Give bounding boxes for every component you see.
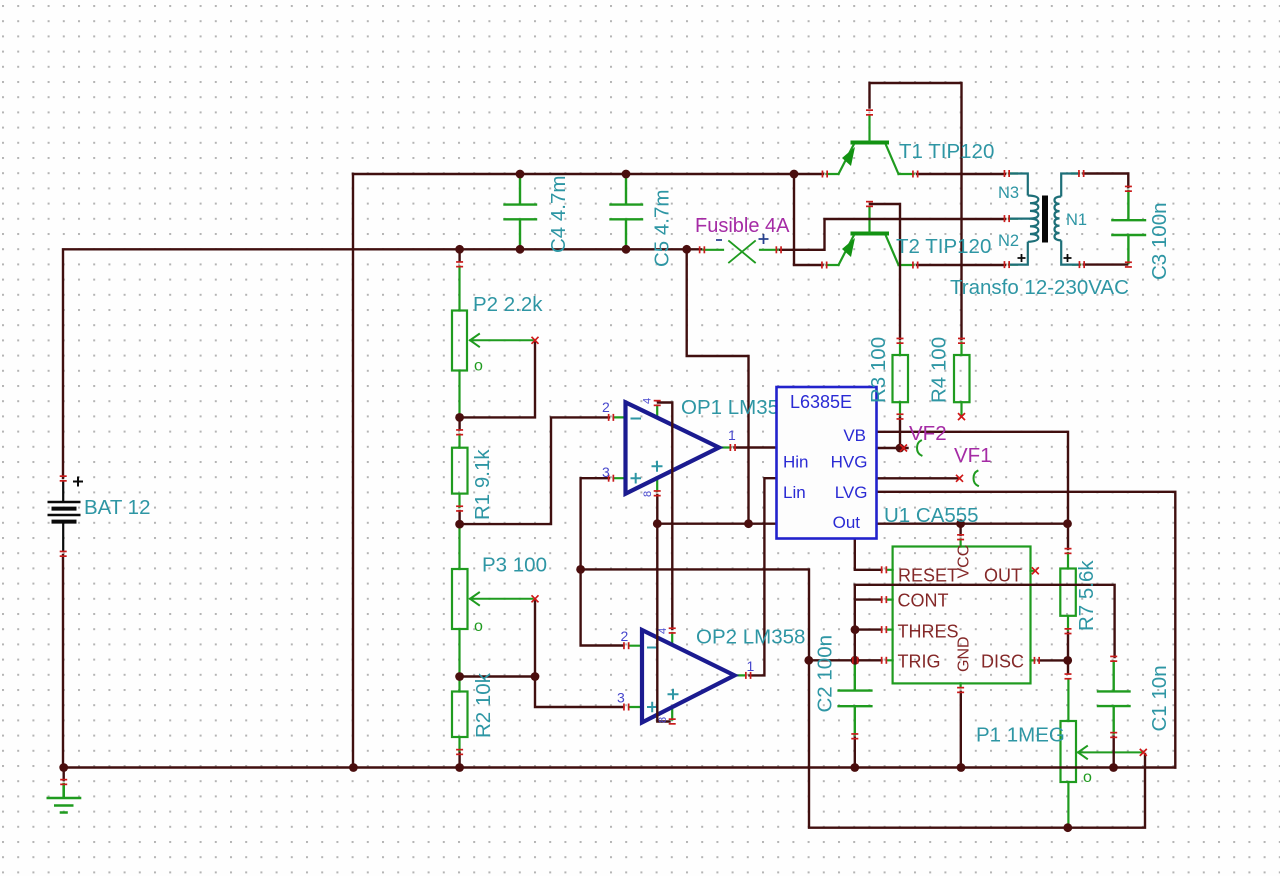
net terminal VF2 (917, 441, 922, 456)
junction C4 bottom (516, 245, 525, 254)
pin cross R7 bottom (1065, 628, 1072, 634)
pin cross C2 top at TRIG junction (852, 657, 858, 664)
OP1 input polarity marks (631, 419, 663, 484)
svg-text:R3 100: R3 100 (867, 337, 890, 403)
pin cross OP2 pin2 (623, 642, 629, 649)
svg-text:LVG: LVG (835, 483, 868, 502)
pin cross U1 DISC (1034, 657, 1040, 664)
junction P2 bottom / wiper (455, 413, 464, 422)
svg-text:2: 2 (621, 628, 629, 644)
pin cross OP1 pin8 (654, 490, 661, 496)
pin cross OP1 pin3 (608, 475, 614, 482)
svg-text:DISC: DISC (981, 652, 1024, 672)
wire: Out row to VCC/R7 junction (877, 523, 1068, 525)
svg-text:C2 100n: C2 100n (814, 635, 837, 713)
junction C2 / THRES (851, 625, 860, 634)
svg-text:R2 10k: R2 10k (472, 672, 495, 738)
svg-text:RESET: RESET (898, 566, 958, 586)
battery plus sign (73, 477, 83, 487)
junction P3 wiper drop (531, 672, 540, 681)
ground symbol (48, 784, 80, 813)
junction DISC / R7 bottom (1063, 656, 1072, 665)
capacitor C5 (611, 174, 643, 249)
svg-text:C4 4.7m: C4 4.7m (547, 176, 570, 253)
pin cross T2 right leg (912, 262, 918, 269)
wire: transformer N1 top to C3 top (1084, 174, 1129, 188)
pin cross C1 top (1110, 656, 1117, 662)
junction fuse branch (682, 245, 691, 254)
pin cross ground (60, 779, 67, 785)
pin cross P3 wiper (532, 595, 539, 602)
wire: junction to OP2 pin3 (535, 677, 624, 708)
junction U1 GND on ground rail (957, 763, 966, 772)
potentiometer P2 (452, 267, 533, 417)
pin cross T1 right leg (912, 171, 918, 178)
svg-text:1: 1 (747, 658, 755, 674)
wire: transformer N1 bottom to C3 bottom (1084, 263, 1127, 265)
IC U1 CA555 box (893, 547, 1031, 684)
junction C2 bottom on ground rail (850, 763, 859, 772)
capacitor C4 (505, 174, 537, 249)
wire: T1 emitter to transformer N3 top pin (917, 173, 1005, 175)
pin cross U1 CONT (881, 596, 887, 603)
pin cross C3 top (1125, 186, 1132, 192)
pin cross P2 top (456, 261, 463, 267)
pin cross T2 base (866, 201, 873, 207)
pin cross OP1 out (730, 444, 736, 451)
wire: OP2 output up to L6385E Lin (750, 478, 777, 675)
pin cross transformer N1 top (1078, 170, 1084, 177)
junction supply net at x=748.5 (744, 519, 753, 528)
pin cross U1 THRES (881, 626, 887, 633)
svg-text:4: 4 (642, 398, 654, 404)
junction OP1 pin8 supply (653, 519, 662, 528)
pin cross C2 bottom (851, 733, 858, 739)
svg-text:VF2: VF2 (909, 422, 947, 445)
OP2 input polarity marks (647, 648, 679, 713)
wire: R2 bottom stub to rail (458, 753, 460, 768)
junction R2 bottom on ground rail (455, 763, 464, 772)
capacitor C2 (839, 663, 872, 735)
svg-text:U1 CA555: U1 CA555 (884, 504, 979, 527)
junction x=353 on ground rail (349, 763, 358, 772)
wire: OP1 pin4 over to OP2 pin4 (658, 403, 672, 630)
pin cross battery plus (60, 475, 67, 481)
pin cross U1 OUT (unconnected) (1032, 567, 1039, 574)
svg-text:OP2 LM358: OP2 LM358 (696, 626, 805, 649)
junction VF2 / R3 bottom (896, 444, 905, 453)
junction TRIG row left (804, 656, 813, 665)
junction P1 bottom on lower rail (1063, 823, 1072, 832)
wire: OP1 output to L6385E Hin (735, 446, 777, 448)
pin cross OP2 pin8 (669, 718, 676, 724)
pin cross R4 top (958, 338, 965, 344)
svg-text:N2: N2 (998, 232, 1019, 250)
svg-text:o: o (474, 618, 483, 635)
pin cross U1 RESET (881, 566, 887, 573)
pin cross VF2 wire end (900, 445, 907, 452)
junction U1 VCC (956, 519, 965, 528)
svg-text:3: 3 (602, 464, 610, 480)
wire: R1 bottom pin stub (458, 511, 460, 524)
svg-text:R7 5.6k: R7 5.6k (1075, 560, 1098, 631)
pin cross transformer N2 bottom (1004, 261, 1010, 268)
wire: fuse output to N2 winding line (780, 219, 1005, 250)
svg-text:8: 8 (642, 491, 654, 497)
wire: OP1 pin3 down to OP2 pin2 (581, 478, 624, 645)
svg-text:P3 100: P3 100 (482, 554, 547, 577)
wire: ground stub below rail junction (63, 768, 65, 781)
junction VB / R7 top (1063, 519, 1072, 528)
pin cross R3 bottom (897, 413, 904, 419)
pin cross OP1 pin4 (654, 400, 661, 406)
OP1 pin stubs (614, 406, 731, 492)
pin cross VF1 wire end (956, 475, 963, 482)
wire: P3 wiper down to junction (534, 601, 536, 677)
wire: OP1 pin8 down to OP2 pin8 (657, 495, 669, 722)
svg-text:GND: GND (956, 636, 973, 672)
svg-text:8: 8 (657, 717, 669, 723)
wire: U1 DISC to R7 bottom junction (1039, 659, 1067, 661)
svg-text:Fusible 4A: Fusible 4A (695, 215, 790, 237)
wire: P2 top pin stub (458, 249, 460, 261)
resistor R4 (954, 343, 970, 416)
fuse polarity marks (716, 234, 769, 244)
wire: T1 collector loop over transistor (870, 83, 962, 339)
pin cross fuse right (776, 246, 782, 253)
OP2 pin stubs (629, 633, 746, 720)
pin cross U1 VCC (957, 534, 964, 540)
svg-text:THRES: THRES (898, 622, 959, 642)
wire: L6385E bottom to U1 RESET (855, 539, 882, 570)
svg-text:Transfo 12-230VAC: Transfo 12-230VAC (950, 276, 1129, 299)
wire: R1 top pin stub (458, 417, 460, 429)
pin cross R1 top (456, 429, 463, 435)
pin cross U1 TRIG (881, 657, 887, 664)
svg-text:T1 TIP120: T1 TIP120 (899, 140, 994, 163)
battery BAT 12 (48, 480, 81, 552)
pin cross R7 top (1065, 548, 1072, 554)
wire: 12V battery feed line (y=249) (63, 249, 701, 478)
svg-text:C3 100n: C3 100n (1148, 202, 1171, 280)
pin cross OP2 pin4 (669, 627, 676, 633)
junction C5 bottom (622, 245, 631, 254)
pin cross battery minus (60, 551, 67, 557)
pin cross U1 GND (957, 687, 964, 693)
pin cross T2 emitter left (821, 262, 827, 269)
svg-text:N1: N1 (1066, 211, 1087, 229)
wire: TRIG row wire (809, 659, 882, 661)
pin cross fuse left (699, 246, 705, 253)
svg-text:VB: VB (843, 426, 866, 445)
wire: CONT net long wire to C1 top (855, 585, 1115, 657)
pin cross P1 wiper (1140, 749, 1147, 756)
wire: U1 GND pin to ground rail (960, 692, 962, 768)
pin cross transformer N3 top (1004, 170, 1010, 177)
wire: LVG pin to VF1 terminal (877, 477, 958, 479)
potentiometer P3 (452, 526, 533, 675)
pin cross R1 bottom (456, 505, 463, 511)
svg-text:TRIG: TRIG (898, 652, 941, 672)
pin cross T1 emitter left (822, 171, 828, 178)
pin cross R4 bottom (unconnected) (958, 413, 965, 420)
junction R1 bottom / OP1 pin2 (455, 520, 464, 529)
wire: C1 bottom to ground rail (1112, 737, 1114, 768)
transformer core (1042, 196, 1048, 243)
pin cross R3 top (897, 338, 904, 344)
svg-text:VF1: VF1 (954, 444, 992, 467)
svg-text:C5 4.7m: C5 4.7m (651, 190, 674, 267)
op-amp OP1 LM358 (626, 402, 720, 493)
svg-text:HVG: HVG (831, 453, 868, 472)
pin cross T1 collector (866, 109, 873, 115)
svg-text:R1 9.1k: R1 9.1k (471, 449, 494, 520)
svg-text:P2 2.2k: P2 2.2k (473, 293, 543, 316)
svg-text:N3: N3 (998, 184, 1019, 202)
svg-text:P1 1MEG: P1 1MEG (976, 724, 1065, 747)
pin cross transformer N1 bottom (1079, 261, 1085, 268)
fuse Fusible 4A (704, 241, 778, 263)
svg-text:3: 3 (617, 690, 625, 706)
wire: CONT vertical branch to C2 top (855, 585, 882, 662)
pin cross OP2 pin3 (623, 704, 629, 711)
wire: U1 VCC pin stub wire (959, 524, 961, 535)
pin cross C1 bottom (1110, 732, 1117, 738)
junction OP2 net at P3 wiper (576, 565, 585, 574)
svg-text:VCC: VCC (956, 545, 973, 579)
net terminal VF1 (974, 471, 979, 486)
transformer polarity plus signs (1018, 254, 1072, 262)
svg-text:T2 TIP120: T2 TIP120 (896, 235, 991, 258)
wire: THRES pin link (855, 628, 882, 630)
pin cross R2 bottom (456, 749, 463, 755)
svg-text:R4 100: R4 100 (928, 337, 951, 403)
wire: LVG long wire right side down to ground rail (877, 492, 1176, 768)
svg-text:1: 1 (728, 427, 736, 443)
pin cross OP1 pin2 (608, 414, 614, 421)
wire: battery minus to ground rail (62, 555, 64, 768)
wire: OP1 pin2 to R1/P3 junction (460, 417, 609, 524)
wire: OP2 output net down to lower rail and P1 wiper (581, 569, 1145, 827)
U1 pin stubs (887, 540, 1035, 688)
junction battery minus on ground rail (59, 763, 68, 772)
transistor T1 TIP120 (827, 116, 914, 174)
svg-text:Out: Out (833, 513, 861, 532)
resistor R3 (893, 343, 909, 416)
potentiometer P1 (1061, 680, 1142, 828)
wire: C2 bottom to ground rail (854, 738, 856, 768)
transformer pin stubs (1009, 174, 1080, 265)
IC L6385E box (777, 387, 877, 539)
wire: long vertical from +12V corner down to ground rail (352, 174, 354, 768)
svg-text:o: o (474, 358, 483, 375)
pin cross C3 bottom (1125, 261, 1132, 267)
wire: T2 right leg to transformer N2 bottom pin (917, 264, 1005, 266)
pin cross OP2 out (745, 672, 751, 679)
wire: L6385E VB pin to R7 top net (877, 432, 1069, 549)
wire: vertical branch from y=174 rail to T2 emitter (794, 174, 823, 265)
svg-text:C1 10n: C1 10n (1148, 665, 1171, 731)
svg-text:BAT 12: BAT 12 (84, 496, 150, 519)
wire: +12V top rail left of T1 (353, 173, 823, 175)
transistor T2 TIP120 (827, 207, 914, 265)
wire: P2 wiper down to R1 top junction (460, 340, 535, 417)
svg-text:Hin: Hin (783, 453, 809, 472)
junction C5 top (622, 170, 631, 179)
junction T2 branch on y=174 rail (790, 170, 799, 179)
capacitor C1 (1098, 662, 1130, 734)
resistor R1 (452, 435, 468, 508)
wire: P1 top pin stub (1067, 660, 1069, 672)
svg-text:2: 2 (602, 399, 610, 415)
capacitor C3 (1112, 191, 1145, 263)
svg-text:4: 4 (657, 628, 669, 634)
junction C2 / TRIG (851, 656, 860, 665)
pin cross P1 top (1065, 673, 1072, 679)
svg-text:CONT: CONT (898, 591, 949, 611)
pin cross P2 wiper (532, 337, 539, 344)
transformer Transfo 12-230VAC : left winding N3/N2 (1009, 174, 1038, 265)
svg-text:OP1 LM358: OP1 LM358 (681, 396, 790, 419)
junction C1 bottom on ground rail (1109, 763, 1118, 772)
junction C4 top (516, 170, 525, 179)
wire: R7 bottom to DISC junction (1067, 633, 1069, 660)
junction P2 top (455, 245, 464, 254)
op-amp OP2 LM358 (642, 630, 735, 723)
wire: fuse junction down and over to supply net (687, 250, 749, 524)
wire: R3 bottom to HVG pin (VF2 node) (877, 418, 908, 449)
wire: main ground rail (63, 766, 1175, 768)
wire: op-amp supply net (Out row, left of L6385E) (657, 523, 776, 525)
svg-text:OUT: OUT (984, 566, 1022, 586)
wire: T2 base to R3 top (870, 204, 900, 339)
wire: P3 bottom junction link (460, 675, 535, 677)
resistor R7 (1060, 553, 1076, 630)
junction P3 bottom / R2 top (455, 672, 464, 681)
svg-text:Lin: Lin (783, 483, 806, 502)
svg-text:o: o (1083, 769, 1092, 786)
pin cross transformer N3/N2 mid (1004, 215, 1010, 222)
resistor R2 (452, 679, 468, 752)
transformer right winding N1 (1054, 174, 1080, 265)
svg-text:L6385E: L6385E (790, 392, 852, 412)
